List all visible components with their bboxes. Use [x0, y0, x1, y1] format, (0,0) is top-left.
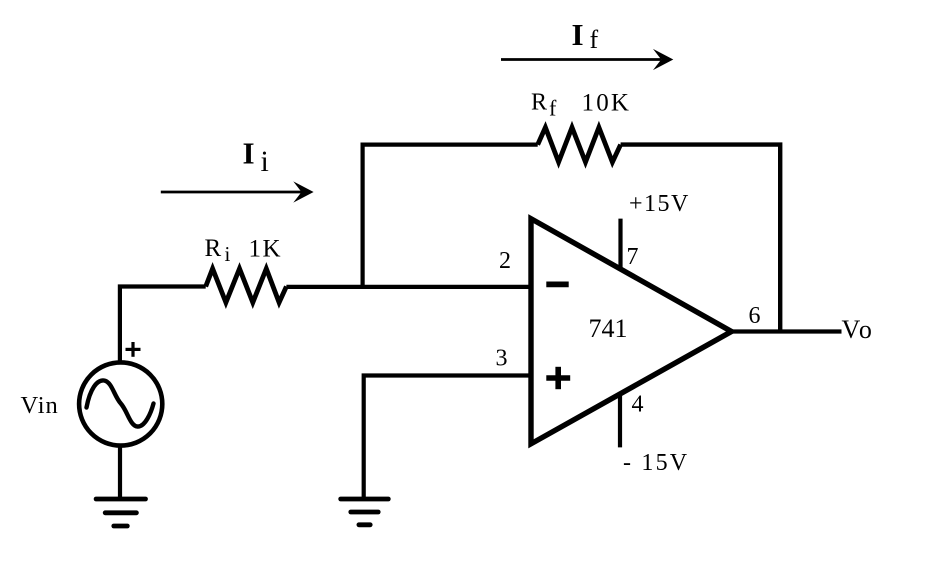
svg-text:1K: 1K [249, 235, 283, 262]
svg-text:3: 3 [496, 345, 508, 371]
ground (non-inverting input) [341, 499, 389, 525]
source Vin (AC) [79, 362, 162, 445]
svg-text:I: I [572, 17, 584, 52]
wire: feedback left vertical + top-left segment [363, 145, 538, 289]
svg-text:741: 741 [589, 314, 628, 343]
label 741 [589, 314, 628, 343]
svg-text:I: I [243, 135, 255, 170]
svg-text:6: 6 [749, 303, 761, 329]
wire: pin 3 to ground vertical + horizontal [364, 376, 531, 498]
svg-text:4: 4 [632, 392, 644, 418]
svg-text:R: R [531, 90, 547, 116]
pin 6 label [749, 303, 761, 329]
svg-text:Vo: Vo [842, 315, 874, 344]
svg-text:i: i [261, 145, 269, 178]
ground (under Vin) [96, 499, 145, 526]
pin 2 label [499, 248, 511, 274]
wire: Vin top vertical + input left segment [120, 287, 206, 364]
label I (feedback current) [572, 17, 599, 54]
current arrow If [501, 49, 673, 70]
wire: Vin to ground [118, 446, 122, 499]
svg-text:10K: 10K [582, 90, 632, 117]
pin 3 label [496, 345, 508, 371]
svg-text:Vin: Vin [21, 392, 59, 419]
label + (non-inverting input) [546, 367, 570, 389]
wire: feedback top-right segment + right vertical [621, 145, 781, 332]
svg-text:7: 7 [627, 244, 639, 270]
resistor Ri [206, 269, 287, 303]
pin 4 (V-) [618, 394, 622, 447]
supply +15V [629, 191, 690, 217]
label Vo [842, 315, 874, 344]
svg-text:+15V: +15V [629, 191, 690, 217]
svg-text:2: 2 [499, 248, 511, 274]
wire: input right segment to pin 2 [286, 285, 531, 289]
label - (inverting input) [546, 281, 568, 287]
op-amp U1 (741) triangle [531, 219, 732, 444]
svg-text:- 15V: - 15V [623, 450, 689, 476]
label Rf [531, 90, 557, 121]
label Vin [21, 392, 59, 419]
supply -15V [623, 450, 689, 476]
svg-text:f: f [549, 95, 557, 120]
label Ri [205, 235, 231, 266]
resistor Rf [538, 127, 621, 162]
current arrow Ii [161, 181, 314, 202]
pin 7 (V+) [618, 219, 622, 270]
label 10K [582, 90, 632, 117]
label I (input current) [243, 135, 269, 178]
svg-text:i: i [225, 242, 231, 266]
pin 4 label [632, 392, 644, 418]
svg-text:f: f [590, 25, 599, 54]
pin 7 label [627, 244, 639, 270]
label 1K [249, 235, 283, 262]
wire: output [729, 329, 842, 333]
label + (Vin polarity) [126, 342, 141, 357]
svg-text:R: R [205, 235, 222, 262]
